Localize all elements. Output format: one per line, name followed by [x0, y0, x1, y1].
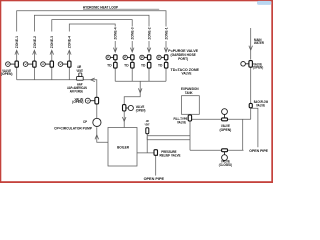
svg-text:ZONE-1: ZONE-1 [164, 27, 168, 39]
svg-text:P: P [158, 56, 160, 60]
svg-text:TANK: TANK [185, 91, 193, 95]
svg-text:OPEN PIPE: OPEN PIPE [249, 149, 268, 153]
svg-text:TD: TD [158, 63, 163, 67]
svg-text:WATER: WATER [254, 41, 265, 45]
svg-text:RELIEF VALVE: RELIEF VALVE [160, 153, 181, 157]
svg-text:ZONE-3: ZONE-3 [131, 27, 135, 39]
svg-text:(OPEN): (OPEN) [220, 128, 232, 132]
svg-text:PORT): PORT) [178, 57, 188, 61]
svg-text:ZONE-2: ZONE-2 [147, 27, 151, 39]
svg-text:CP=CIRCULATOR PUMP: CP=CIRCULATOR PUMP [54, 127, 93, 131]
svg-text:(CLOSED): (CLOSED) [219, 163, 232, 167]
svg-text:(OPEN): (OPEN) [253, 66, 263, 70]
svg-text:ZONE-4: ZONE-4 [114, 27, 118, 39]
svg-text:ZONE-4: ZONE-4 [68, 36, 72, 48]
svg-text:ZONE-2: ZONE-2 [33, 36, 37, 48]
svg-text:VENT: VENT [145, 123, 150, 127]
svg-text:HYDRONIC HEAT LOOP: HYDRONIC HEAT LOOP [83, 5, 119, 9]
svg-text:AIR PURGE: AIR PURGE [70, 89, 83, 93]
svg-text:(OPEN): (OPEN) [72, 100, 83, 104]
svg-text:P: P [141, 56, 143, 60]
svg-text:OPEN PIPE: OPEN PIPE [144, 177, 164, 181]
svg-text:VENT: VENT [77, 69, 83, 73]
svg-text:ZONE-1: ZONE-1 [15, 36, 19, 48]
svg-text:VALVE: VALVE [256, 104, 265, 108]
svg-text:VALVE: VALVE [177, 120, 186, 124]
svg-text:ZONE-3: ZONE-3 [50, 36, 54, 48]
svg-text:(OPEN): (OPEN) [1, 72, 13, 76]
svg-text:(OPEN): (OPEN) [136, 109, 146, 113]
svg-text:VALVE: VALVE [182, 71, 192, 75]
svg-text:BOILER: BOILER [117, 146, 130, 150]
svg-text:P: P [124, 56, 126, 60]
svg-text:TD: TD [107, 63, 112, 67]
svg-text:P: P [107, 56, 109, 60]
svg-text:TD: TD [124, 63, 129, 67]
svg-text:TD: TD [141, 63, 146, 67]
